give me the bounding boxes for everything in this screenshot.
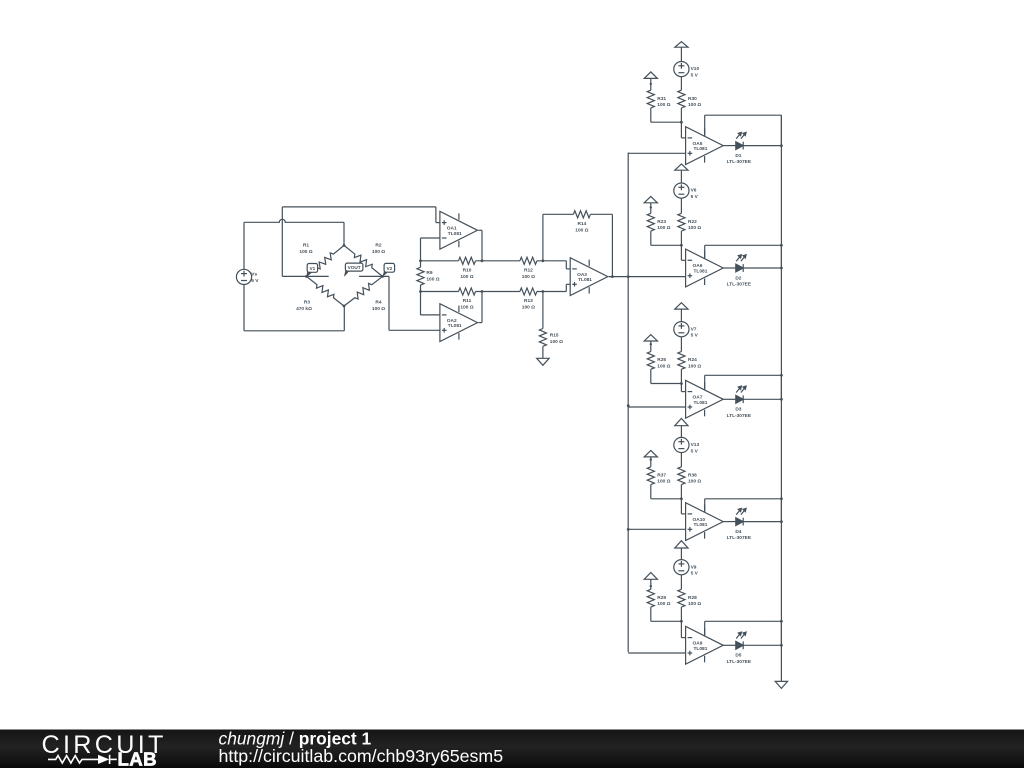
svg-text:Vs: Vs	[251, 272, 257, 278]
svg-text:LTL-307EE: LTL-307EE	[727, 413, 752, 419]
svg-text:R3: R3	[304, 300, 310, 306]
svg-text:V10: V10	[691, 66, 700, 72]
svg-text:R13: R13	[524, 298, 533, 304]
svg-text:VOUT: VOUT	[348, 265, 361, 270]
svg-text:100 Ω: 100 Ω	[575, 227, 588, 233]
svg-text:LTL-307EE: LTL-307EE	[727, 535, 752, 541]
svg-text:LAB: LAB	[118, 749, 157, 768]
svg-text:V6: V6	[691, 188, 697, 194]
svg-text:R37: R37	[657, 472, 666, 478]
svg-text:R28: R28	[688, 595, 697, 601]
svg-text:R23: R23	[657, 219, 666, 225]
svg-text:100 Ω: 100 Ω	[657, 601, 670, 607]
svg-text:V13: V13	[691, 442, 700, 448]
svg-text:D2: D2	[735, 275, 741, 281]
svg-text:OA7: OA7	[693, 395, 703, 401]
svg-text:100 Ω: 100 Ω	[657, 225, 670, 231]
svg-text:100 Ω: 100 Ω	[688, 225, 701, 231]
svg-text:100 Ω: 100 Ω	[522, 274, 535, 280]
svg-text:V9: V9	[691, 564, 697, 570]
svg-text:TL081: TL081	[694, 269, 708, 275]
svg-text:100 Ω: 100 Ω	[688, 102, 701, 108]
svg-text:100 Ω: 100 Ω	[372, 306, 385, 312]
svg-text:TL081: TL081	[448, 323, 462, 329]
svg-text:100 Ω: 100 Ω	[460, 305, 473, 311]
svg-text:V2: V2	[386, 266, 392, 271]
svg-text:TL081: TL081	[694, 522, 708, 528]
svg-text:5 V: 5 V	[691, 571, 699, 577]
svg-text:100 Ω: 100 Ω	[426, 276, 439, 282]
svg-text:R22: R22	[688, 219, 697, 225]
svg-text:R9: R9	[426, 270, 432, 276]
svg-text:R4: R4	[375, 300, 381, 306]
svg-text:100 Ω: 100 Ω	[688, 363, 701, 369]
svg-text:OA3: OA3	[577, 272, 587, 278]
svg-text:OA6: OA6	[693, 263, 703, 269]
svg-text:LTL-307EE: LTL-307EE	[727, 282, 752, 288]
svg-text:5 V: 5 V	[691, 448, 699, 454]
svg-text:100 Ω: 100 Ω	[688, 601, 701, 607]
svg-text:R24: R24	[688, 357, 697, 363]
svg-text:5 V: 5 V	[691, 333, 699, 339]
svg-text:5 V: 5 V	[691, 73, 699, 79]
svg-text:D5: D5	[735, 653, 741, 659]
svg-text:100 Ω: 100 Ω	[460, 274, 473, 280]
svg-text:470 kΩ: 470 kΩ	[296, 306, 312, 312]
svg-text:LTL-307EE: LTL-307EE	[727, 659, 752, 665]
svg-text:100 Ω: 100 Ω	[657, 479, 670, 485]
svg-text:TL081: TL081	[694, 146, 708, 152]
svg-text:R15: R15	[550, 333, 559, 339]
svg-text:OA9: OA9	[693, 641, 703, 647]
svg-text:100 Ω: 100 Ω	[522, 305, 535, 311]
svg-text:OA2: OA2	[447, 318, 457, 324]
svg-text:TL081: TL081	[694, 646, 708, 652]
svg-text:D1: D1	[735, 153, 741, 159]
svg-text:V7: V7	[691, 326, 697, 332]
svg-text:R10: R10	[463, 268, 472, 274]
svg-text:100 Ω: 100 Ω	[550, 339, 563, 345]
svg-text:R31: R31	[657, 96, 666, 102]
svg-text:TL081: TL081	[448, 231, 462, 237]
svg-text:100 Ω: 100 Ω	[299, 249, 312, 255]
svg-text:OA1: OA1	[447, 226, 457, 232]
svg-text:R30: R30	[688, 96, 697, 102]
svg-text:D4: D4	[735, 529, 741, 535]
svg-text:100 Ω: 100 Ω	[657, 363, 670, 369]
svg-text:5 V: 5 V	[251, 278, 259, 284]
svg-text:LTL-307EE: LTL-307EE	[727, 159, 752, 165]
svg-text:R14: R14	[577, 221, 586, 227]
svg-text:R29: R29	[657, 595, 666, 601]
svg-text:TL081: TL081	[694, 400, 708, 406]
svg-text:100 Ω: 100 Ω	[372, 249, 385, 255]
svg-text:TL081: TL081	[578, 277, 592, 283]
svg-text:100 Ω: 100 Ω	[688, 479, 701, 485]
svg-text:R25: R25	[657, 357, 666, 363]
svg-text:R12: R12	[524, 268, 533, 274]
svg-text:V1: V1	[310, 266, 316, 271]
svg-text:OA10: OA10	[693, 517, 706, 523]
svg-text:D3: D3	[735, 407, 741, 413]
svg-text:OA5: OA5	[693, 141, 703, 147]
svg-text:5 V: 5 V	[691, 194, 699, 200]
svg-text:http://circuitlab.com/chb93ry6: http://circuitlab.com/chb93ry65esm5	[219, 746, 504, 766]
svg-text:R11: R11	[463, 298, 472, 304]
svg-text:R36: R36	[688, 472, 697, 478]
svg-text:R1: R1	[303, 242, 309, 248]
svg-text:100 Ω: 100 Ω	[657, 102, 670, 108]
svg-text:R2: R2	[375, 242, 381, 248]
